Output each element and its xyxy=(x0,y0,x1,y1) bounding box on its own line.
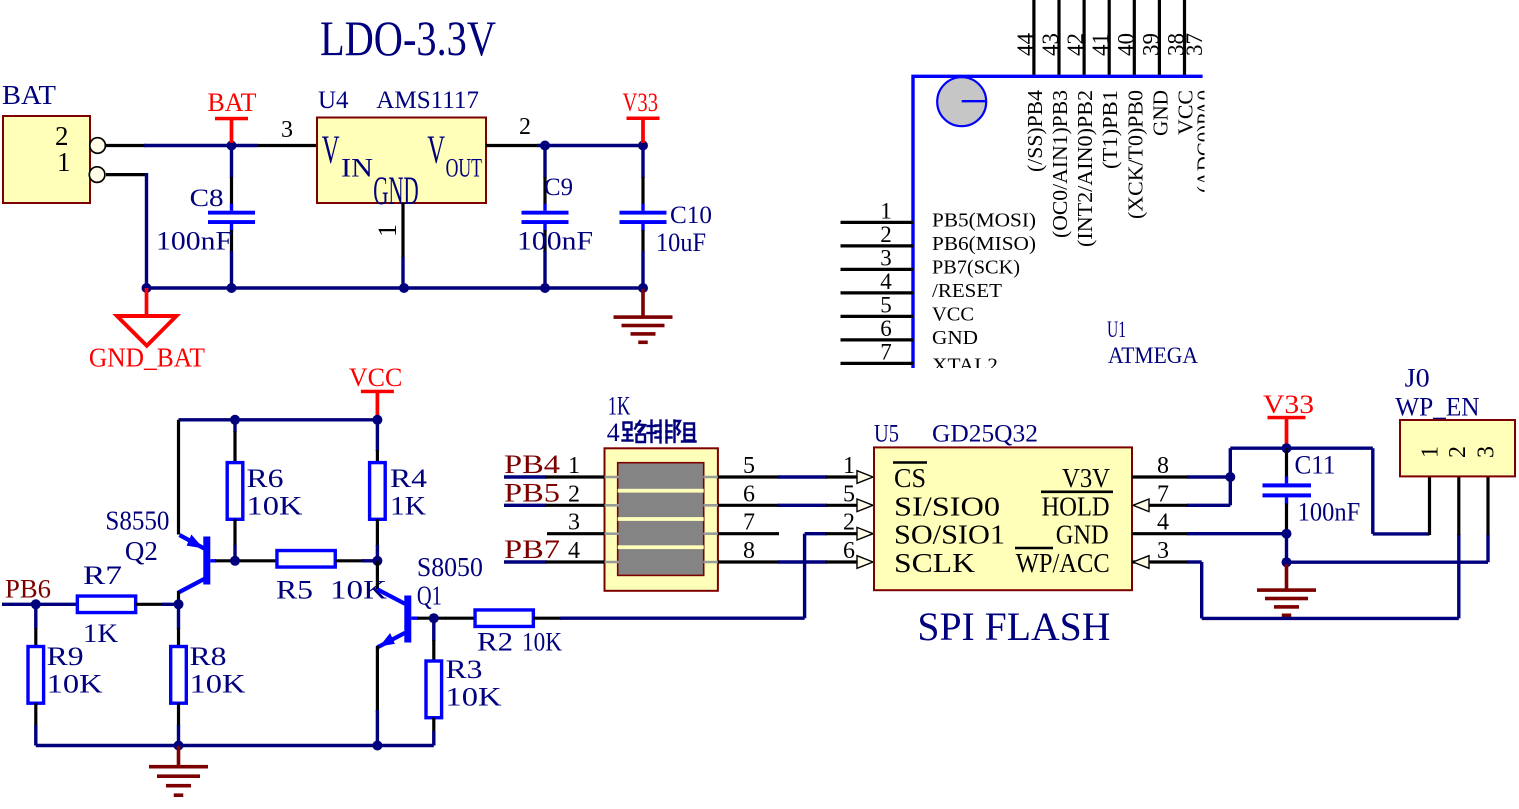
svg-text:43: 43 xyxy=(1038,33,1063,56)
svg-text:10K: 10K xyxy=(190,670,246,699)
svg-text:BAT: BAT xyxy=(208,88,257,117)
svg-text:IN: IN xyxy=(341,154,373,183)
svg-text:V33: V33 xyxy=(1263,390,1314,419)
svg-text:4: 4 xyxy=(880,269,892,294)
svg-text:R5: R5 xyxy=(276,576,313,605)
svg-text:1: 1 xyxy=(57,147,71,177)
svg-text:42: 42 xyxy=(1063,33,1088,56)
svg-text:4: 4 xyxy=(568,538,580,564)
svg-text:2: 2 xyxy=(568,481,580,507)
svg-text:R8: R8 xyxy=(190,642,227,671)
svg-text:PB5: PB5 xyxy=(504,478,560,507)
svg-text:4: 4 xyxy=(1157,510,1169,536)
svg-text:HOLD: HOLD xyxy=(1042,491,1110,521)
svg-text:100nF: 100nF xyxy=(1298,497,1361,526)
svg-text:S8050: S8050 xyxy=(417,552,483,582)
svg-text:10K: 10K xyxy=(47,670,103,699)
svg-text:2: 2 xyxy=(519,114,531,140)
svg-text:10K: 10K xyxy=(522,628,562,657)
svg-text:C8: C8 xyxy=(190,185,224,212)
svg-text:7: 7 xyxy=(880,339,892,364)
svg-text:(/SS)PB4: (/SS)PB4 xyxy=(1023,89,1047,172)
svg-text:6: 6 xyxy=(843,538,855,564)
svg-text:8: 8 xyxy=(743,538,755,564)
svg-text:Q1: Q1 xyxy=(417,581,442,611)
svg-text:ATMEGA: ATMEGA xyxy=(1108,343,1198,368)
svg-text:10K: 10K xyxy=(446,683,502,712)
svg-text:3: 3 xyxy=(568,510,580,536)
svg-text:40: 40 xyxy=(1113,33,1138,56)
svg-text:U5: U5 xyxy=(874,421,899,448)
svg-text:6: 6 xyxy=(880,316,892,341)
svg-text:S8550: S8550 xyxy=(105,506,169,536)
svg-text:R3: R3 xyxy=(446,655,483,684)
svg-text:(OC0/AIN1)PB3: (OC0/AIN1)PB3 xyxy=(1048,90,1072,238)
svg-text:V33: V33 xyxy=(623,88,659,117)
svg-text:GD25Q32: GD25Q32 xyxy=(932,421,1038,448)
svg-text:GND: GND xyxy=(932,328,978,349)
svg-text:7: 7 xyxy=(743,510,755,536)
svg-text:J0: J0 xyxy=(1405,364,1430,393)
svg-text:GND: GND xyxy=(373,168,419,213)
svg-text:SCLK: SCLK xyxy=(894,548,976,578)
svg-text:3: 3 xyxy=(1474,446,1500,458)
svg-text:3: 3 xyxy=(281,117,293,143)
svg-text:1K: 1K xyxy=(390,492,426,521)
svg-text:PB4: PB4 xyxy=(504,450,560,479)
svg-text:39: 39 xyxy=(1138,33,1163,56)
svg-text:R6: R6 xyxy=(247,464,284,493)
svg-text:2: 2 xyxy=(843,510,855,536)
svg-text:PB7: PB7 xyxy=(504,535,560,564)
svg-text:C9: C9 xyxy=(544,174,573,201)
svg-text:V: V xyxy=(427,127,445,172)
svg-text:WP_EN: WP_EN xyxy=(1395,393,1480,422)
svg-text:100nF: 100nF xyxy=(156,227,232,256)
svg-text:Q2: Q2 xyxy=(125,536,158,566)
svg-text:1K: 1K xyxy=(608,392,631,421)
svg-text:41: 41 xyxy=(1088,33,1113,56)
svg-text:2: 2 xyxy=(1445,446,1471,458)
svg-text:100nF: 100nF xyxy=(517,227,593,256)
svg-text:(T1)PB1: (T1)PB1 xyxy=(1098,90,1122,169)
svg-text:8: 8 xyxy=(1157,453,1169,479)
svg-text:10K: 10K xyxy=(247,492,303,521)
svg-text:R4: R4 xyxy=(390,464,427,493)
svg-text:R9: R9 xyxy=(47,642,84,671)
svg-text:VCC: VCC xyxy=(349,363,402,392)
svg-text:5: 5 xyxy=(843,481,855,507)
svg-text:3: 3 xyxy=(1157,538,1169,564)
svg-text:PB5(MOSI): PB5(MOSI) xyxy=(932,211,1036,232)
svg-text:SO/SIO1: SO/SIO1 xyxy=(894,520,1005,550)
svg-text:GND_BAT: GND_BAT xyxy=(89,343,205,373)
svg-text:(INT2/AIN0)PB2: (INT2/AIN0)PB2 xyxy=(1073,90,1097,247)
svg-text:VCC: VCC xyxy=(932,305,974,326)
svg-text:GND: GND xyxy=(1148,90,1172,136)
svg-text:R7: R7 xyxy=(83,561,122,590)
svg-text:U1: U1 xyxy=(1107,317,1126,342)
svg-text:2: 2 xyxy=(880,222,892,247)
svg-text:7: 7 xyxy=(1157,481,1169,507)
svg-text:SI/SIO0: SI/SIO0 xyxy=(894,491,1000,521)
svg-text:/RESET: /RESET xyxy=(932,281,1002,302)
svg-text:U4: U4 xyxy=(318,87,349,114)
svg-text:6: 6 xyxy=(743,481,755,507)
svg-text:SPI FLASH: SPI FLASH xyxy=(917,604,1110,649)
svg-text:1: 1 xyxy=(880,198,892,223)
svg-text:37: 37 xyxy=(1182,33,1207,56)
svg-text:V: V xyxy=(322,127,340,172)
svg-text:(XCK/T0)PB0: (XCK/T0)PB0 xyxy=(1123,90,1147,219)
svg-text:5: 5 xyxy=(743,453,755,479)
svg-text:10uF: 10uF xyxy=(656,228,706,257)
svg-text:1: 1 xyxy=(568,453,580,479)
svg-text:GND: GND xyxy=(1056,520,1109,550)
svg-text:WP/ACC: WP/ACC xyxy=(1016,548,1110,578)
svg-text:OUT: OUT xyxy=(446,154,482,183)
svg-text:4: 4 xyxy=(607,418,620,447)
svg-text:PB6: PB6 xyxy=(5,575,51,604)
svg-text:V3V: V3V xyxy=(1062,463,1110,493)
svg-text:AMS1117: AMS1117 xyxy=(376,87,479,114)
svg-text:CS: CS xyxy=(894,463,926,493)
svg-text:44: 44 xyxy=(1013,33,1038,57)
svg-text:LDO-3.3V: LDO-3.3V xyxy=(320,10,496,66)
svg-text:C11: C11 xyxy=(1295,451,1336,480)
svg-text:PB6(MISO): PB6(MISO) xyxy=(932,234,1036,255)
svg-text:5: 5 xyxy=(880,292,892,317)
svg-text:R2: R2 xyxy=(477,628,513,657)
svg-text:BAT: BAT xyxy=(2,80,57,110)
svg-text:1: 1 xyxy=(373,224,402,237)
svg-text:1: 1 xyxy=(843,453,855,479)
svg-text:1: 1 xyxy=(1418,446,1444,458)
svg-text:3: 3 xyxy=(880,245,892,270)
svg-text:C10: C10 xyxy=(670,202,712,229)
svg-text:PB7(SCK): PB7(SCK) xyxy=(932,258,1020,279)
svg-text:1K: 1K xyxy=(83,619,118,648)
